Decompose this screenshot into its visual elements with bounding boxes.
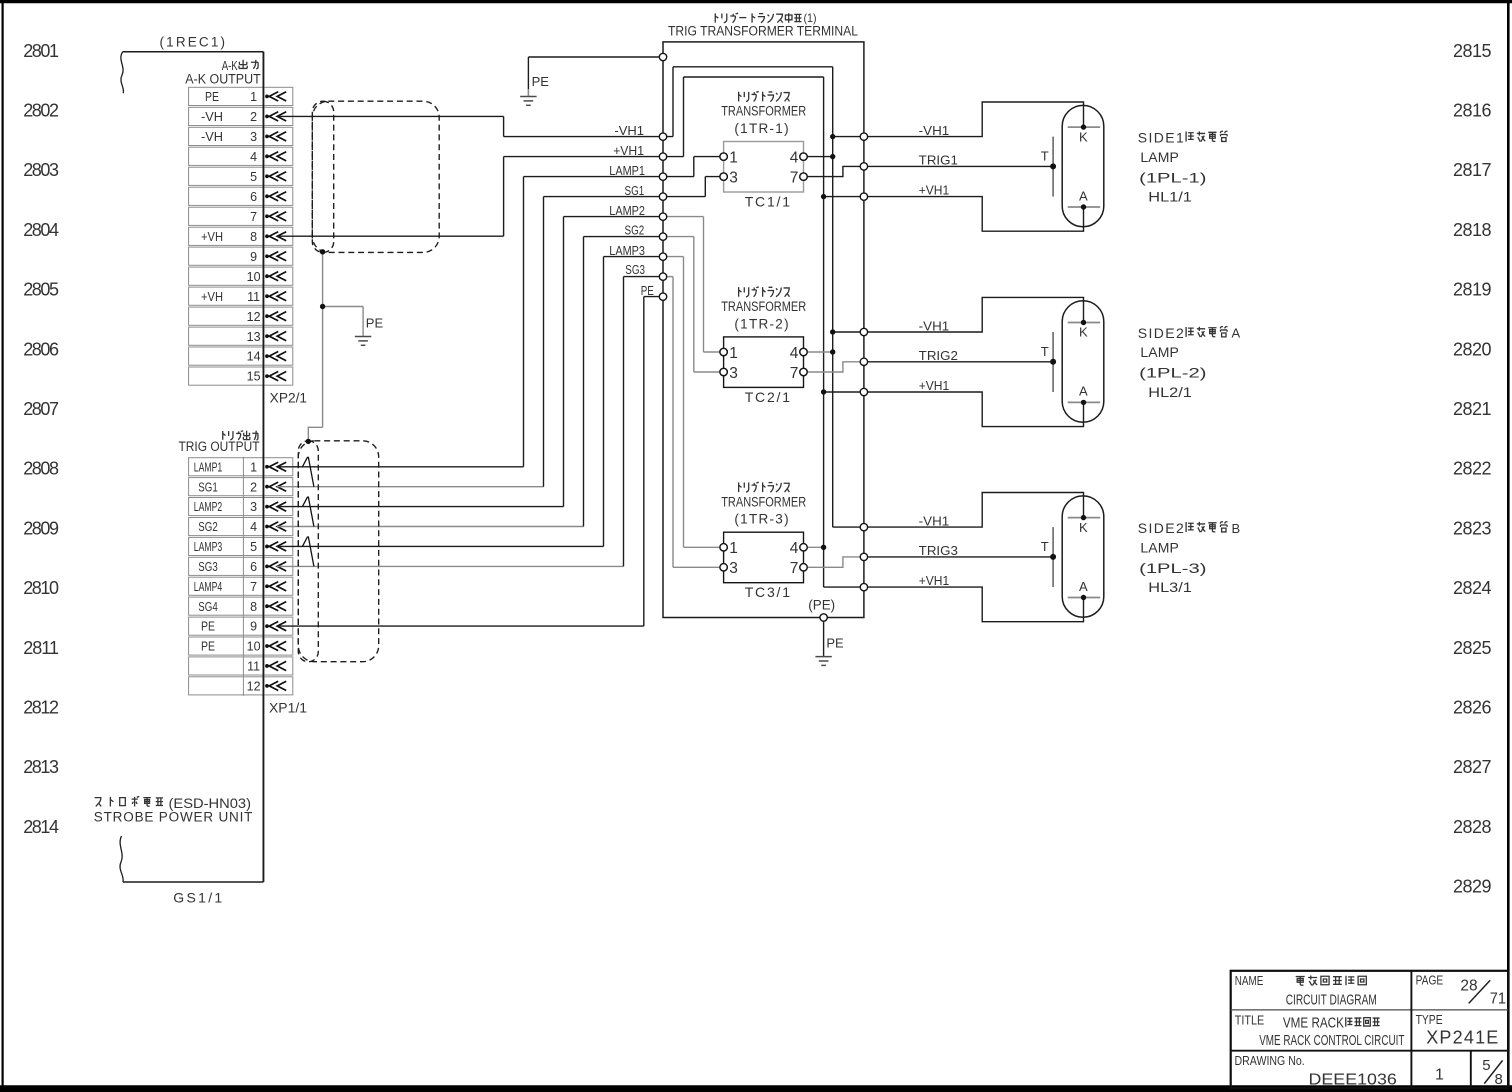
svg-text:10: 10 — [247, 640, 261, 654]
svg-text:-VH1: -VH1 — [919, 123, 950, 138]
svg-text:4: 4 — [790, 540, 799, 557]
svg-text:7: 7 — [790, 169, 799, 186]
svg-text:+VH1: +VH1 — [919, 573, 950, 588]
svg-text:LAMP2: LAMP2 — [194, 500, 223, 514]
svg-text:XP1/1: XP1/1 — [269, 701, 307, 716]
svg-text:LAMP1: LAMP1 — [194, 460, 223, 474]
svg-text:CIRCUIT DIAGRAM: CIRCUIT DIAGRAM — [1286, 992, 1377, 1008]
svg-text:9: 9 — [250, 620, 257, 634]
svg-text:-VH: -VH — [201, 130, 223, 144]
svg-text:2822: 2822 — [1453, 459, 1492, 479]
svg-text:PE: PE — [532, 74, 550, 89]
svg-text:2807: 2807 — [23, 399, 59, 419]
svg-text:2811: 2811 — [23, 638, 59, 658]
svg-text:13: 13 — [247, 330, 261, 344]
svg-text:VME RACK: VME RACK — [1283, 1016, 1344, 1032]
svg-text:SG2: SG2 — [198, 520, 218, 534]
svg-text:8: 8 — [250, 600, 257, 614]
svg-text:3: 3 — [729, 365, 738, 382]
svg-text:3: 3 — [729, 560, 738, 577]
svg-text:3: 3 — [729, 169, 738, 186]
svg-text:SG3: SG3 — [198, 560, 218, 574]
svg-text:4: 4 — [250, 520, 257, 534]
svg-text:A: A — [1232, 326, 1241, 341]
svg-text:2808: 2808 — [23, 459, 59, 479]
svg-text:28: 28 — [1460, 977, 1477, 994]
svg-text:XP2/1: XP2/1 — [270, 390, 307, 405]
svg-text:12: 12 — [247, 310, 261, 324]
svg-text:SG1: SG1 — [625, 183, 645, 198]
svg-text:9: 9 — [250, 250, 257, 264]
svg-text:7: 7 — [250, 210, 257, 224]
svg-text:T: T — [1041, 539, 1049, 554]
svg-text:TRANSFORMER: TRANSFORMER — [721, 494, 806, 509]
svg-text:HL3/1: HL3/1 — [1148, 579, 1192, 595]
svg-text:2813: 2813 — [23, 757, 59, 777]
svg-text:LAMP: LAMP — [1140, 149, 1178, 165]
svg-text:PE: PE — [205, 90, 219, 104]
svg-text:7: 7 — [790, 365, 799, 382]
svg-text:2824: 2824 — [1453, 578, 1492, 598]
svg-text:1: 1 — [250, 460, 257, 474]
svg-text:2829: 2829 — [1453, 877, 1492, 897]
svg-text:LAMP3: LAMP3 — [609, 243, 645, 258]
svg-text:T: T — [1041, 344, 1049, 359]
svg-text:(1PL-2): (1PL-2) — [1139, 365, 1206, 381]
svg-text:2821: 2821 — [1453, 399, 1492, 419]
svg-text:2802: 2802 — [23, 101, 59, 121]
svg-text:2827: 2827 — [1453, 757, 1492, 777]
svg-text:PE: PE — [366, 316, 384, 331]
svg-text:T: T — [1041, 149, 1049, 164]
svg-text:PAGE: PAGE — [1416, 974, 1444, 988]
svg-text:TC1/1: TC1/1 — [745, 193, 791, 209]
svg-text:PE: PE — [826, 636, 844, 651]
svg-text:A: A — [1079, 188, 1088, 203]
svg-text:(PE): (PE) — [808, 598, 835, 613]
svg-text:TITLE: TITLE — [1235, 1013, 1264, 1027]
svg-text:LAMP1: LAMP1 — [609, 163, 645, 178]
svg-text:14: 14 — [247, 350, 261, 364]
svg-text:+VH: +VH — [201, 230, 223, 244]
svg-text:TRIG TRANSFORMER TERMINAL: TRIG TRANSFORMER TERMINAL — [668, 24, 858, 39]
svg-text:71: 71 — [1490, 991, 1506, 1008]
svg-text:LAMP2: LAMP2 — [609, 203, 645, 218]
svg-text:2825: 2825 — [1453, 638, 1492, 658]
svg-text:A: A — [1079, 384, 1088, 399]
svg-text:8: 8 — [1495, 1071, 1503, 1088]
svg-text:2828: 2828 — [1453, 817, 1492, 837]
svg-text:3: 3 — [250, 500, 257, 514]
svg-text:5: 5 — [250, 170, 257, 184]
svg-text:HL2/1: HL2/1 — [1148, 384, 1192, 400]
svg-text:3: 3 — [250, 130, 257, 144]
svg-text:2817: 2817 — [1453, 160, 1492, 180]
svg-text:K: K — [1079, 129, 1088, 144]
svg-text:1: 1 — [729, 540, 738, 557]
svg-text:SIDE2: SIDE2 — [1138, 325, 1184, 341]
svg-text:6: 6 — [250, 190, 257, 204]
svg-text:15: 15 — [247, 370, 261, 384]
svg-text:7: 7 — [790, 560, 799, 577]
svg-text:TC3/1: TC3/1 — [745, 584, 791, 600]
svg-text:(1TR-1): (1TR-1) — [734, 121, 788, 136]
svg-text:2804: 2804 — [23, 220, 59, 240]
svg-text:LAMP: LAMP — [1140, 539, 1178, 555]
svg-text:NAME: NAME — [1235, 974, 1264, 988]
svg-text:TRIG2: TRIG2 — [919, 348, 958, 363]
svg-text:12: 12 — [247, 680, 261, 694]
svg-text:1: 1 — [729, 149, 738, 166]
svg-text:2823: 2823 — [1453, 518, 1492, 538]
svg-text:2826: 2826 — [1453, 698, 1492, 718]
svg-text:+VH1: +VH1 — [613, 143, 644, 158]
svg-text:+VH1: +VH1 — [919, 378, 950, 393]
svg-text:11: 11 — [247, 290, 260, 304]
svg-text:DRAWING No.: DRAWING No. — [1235, 1054, 1305, 1068]
svg-text:PE: PE — [201, 620, 215, 634]
svg-text:2: 2 — [250, 110, 257, 124]
svg-text:B: B — [1232, 521, 1241, 536]
svg-text:4: 4 — [250, 150, 257, 164]
svg-text:SG2: SG2 — [625, 222, 645, 237]
svg-text:TRIG1: TRIG1 — [919, 153, 958, 168]
svg-text:2819: 2819 — [1453, 280, 1492, 300]
svg-text:6: 6 — [250, 560, 257, 574]
svg-text:TC2/1: TC2/1 — [745, 389, 791, 405]
svg-text:4: 4 — [790, 149, 799, 166]
svg-text:4: 4 — [790, 345, 799, 362]
svg-text:TRANSFORMER: TRANSFORMER — [721, 104, 806, 119]
svg-text:2809: 2809 — [23, 518, 59, 538]
svg-text:2: 2 — [250, 480, 257, 494]
svg-text:LAMP: LAMP — [1140, 344, 1178, 360]
svg-text:2810: 2810 — [23, 578, 59, 598]
svg-text:VME RACK CONTROL CIRCUIT: VME RACK CONTROL CIRCUIT — [1259, 1033, 1404, 1049]
svg-text:A-K OUTPUT: A-K OUTPUT — [185, 71, 260, 86]
svg-text:2814: 2814 — [23, 817, 59, 837]
svg-text:(ESD-HN03): (ESD-HN03) — [169, 796, 252, 811]
svg-text:GS1/1: GS1/1 — [173, 890, 222, 906]
svg-text:DEEE1036: DEEE1036 — [1309, 1071, 1397, 1088]
svg-text:-VH1: -VH1 — [919, 514, 950, 529]
svg-text:2820: 2820 — [1453, 339, 1492, 359]
svg-text:SG3: SG3 — [625, 262, 645, 277]
svg-text:2803: 2803 — [23, 160, 59, 180]
svg-text:STROBE POWER UNIT: STROBE POWER UNIT — [94, 810, 253, 825]
svg-text:+VH: +VH — [201, 290, 223, 304]
svg-text:TRIG OUTPUT: TRIG OUTPUT — [179, 439, 260, 454]
svg-text:2805: 2805 — [23, 280, 59, 300]
svg-text:1: 1 — [1435, 1066, 1444, 1083]
svg-text:K: K — [1079, 520, 1088, 535]
svg-text:HL1/1: HL1/1 — [1148, 189, 1192, 205]
svg-text:K: K — [1079, 325, 1088, 340]
svg-text:PE: PE — [641, 283, 654, 298]
svg-text:TRANSFORMER: TRANSFORMER — [721, 299, 806, 314]
svg-text:8: 8 — [250, 230, 257, 244]
svg-text:SG4: SG4 — [198, 600, 218, 614]
svg-text:11: 11 — [247, 660, 260, 674]
svg-text:10: 10 — [247, 270, 261, 284]
svg-text:1: 1 — [250, 90, 257, 104]
svg-text:(1PL-3): (1PL-3) — [1139, 560, 1206, 576]
svg-text:TRIG3: TRIG3 — [919, 543, 958, 558]
svg-text:-VH: -VH — [201, 110, 223, 124]
svg-text:TYPE: TYPE — [1416, 1013, 1443, 1027]
svg-text:(1REC1): (1REC1) — [160, 35, 226, 50]
svg-text:2801: 2801 — [23, 41, 59, 61]
svg-text:-VH1: -VH1 — [919, 318, 950, 333]
svg-text:(1TR-3): (1TR-3) — [734, 512, 788, 527]
svg-text:(1PL-1): (1PL-1) — [1139, 169, 1206, 185]
svg-text:2806: 2806 — [23, 339, 59, 359]
svg-text:(1TR-2): (1TR-2) — [734, 316, 788, 331]
svg-text:7: 7 — [250, 580, 257, 594]
svg-text:2815: 2815 — [1453, 41, 1492, 61]
svg-text:SG1: SG1 — [198, 480, 218, 494]
svg-text:PE: PE — [201, 640, 215, 654]
svg-text:A: A — [1079, 579, 1088, 594]
svg-text:5: 5 — [250, 540, 257, 554]
svg-text:LAMP3: LAMP3 — [194, 540, 223, 554]
svg-text:2812: 2812 — [23, 698, 59, 718]
svg-text:1: 1 — [729, 345, 738, 362]
svg-text:2816: 2816 — [1453, 101, 1492, 121]
svg-text:-VH1: -VH1 — [614, 123, 644, 138]
svg-text:XP241E: XP241E — [1426, 1028, 1498, 1048]
svg-text:+VH1: +VH1 — [919, 182, 950, 197]
svg-text:5: 5 — [1482, 1057, 1490, 1074]
svg-text:2818: 2818 — [1453, 220, 1492, 240]
svg-text:SIDE2: SIDE2 — [1138, 520, 1184, 536]
svg-text:LAMP4: LAMP4 — [194, 580, 223, 594]
svg-text:SIDE1: SIDE1 — [1138, 130, 1184, 146]
